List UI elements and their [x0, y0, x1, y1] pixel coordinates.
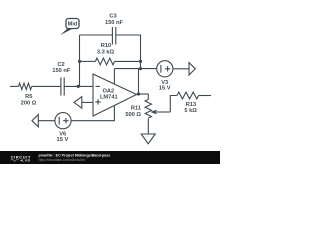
wire wiper up to R13	[170, 96, 177, 113]
wire rail down to output node	[138, 69, 140, 94]
wire R13 right lead	[199, 95, 211, 97]
potentiometer R11	[145, 100, 151, 119]
node junction at inverting input	[77, 85, 80, 88]
ground flag right of V3	[189, 63, 195, 75]
wire input left	[10, 85, 19, 87]
ground flag at noninverting input	[74, 97, 82, 109]
footer watermark bar	[0, 151, 220, 164]
svg-text:C3: C3	[109, 14, 116, 20]
svg-text:500 Ω: 500 Ω	[125, 112, 141, 118]
voltage source V6	[55, 113, 71, 129]
svg-text:150 nF: 150 nF	[105, 20, 124, 26]
resistor R5	[19, 83, 32, 89]
svg-text:http://circuitlab.com/c5n4u5rt: http://circuitlab.com/c5n4u5rt/	[39, 158, 86, 162]
svg-text:5 kΩ: 5 kΩ	[184, 108, 197, 114]
wire R10 left lead	[80, 60, 96, 62]
op-amp U1 OA2 LM741	[93, 74, 137, 116]
svg-text:R5: R5	[25, 94, 32, 100]
svg-text:15 V: 15 V	[159, 86, 171, 92]
node junction R10 right	[139, 60, 142, 63]
wire R10 right lead	[115, 60, 141, 62]
wire pot bottom to ground	[147, 119, 149, 134]
wire R5 to C2	[32, 85, 61, 87]
svg-text:R11: R11	[131, 106, 141, 112]
voltage source V3	[157, 61, 173, 77]
svg-text:15 V: 15 V	[57, 137, 69, 143]
svg-text:150 nF: 150 nF	[52, 68, 71, 74]
svg-text:C2: C2	[57, 62, 64, 68]
node junction output	[137, 92, 140, 95]
svg-text:Mid: Mid	[68, 22, 78, 28]
wire V6 left to ground flag	[38, 120, 55, 122]
svg-text:3.3 kΩ: 3.3 kΩ	[97, 50, 115, 56]
svg-text:◂LAB: ◂LAB	[19, 158, 30, 162]
ground flag left of V6	[32, 115, 38, 127]
wire op-amp output	[137, 93, 149, 95]
wire output down to pot R11	[147, 94, 149, 100]
capacitor C2	[61, 78, 64, 96]
resistor R10	[95, 58, 114, 65]
node junction R10 left	[78, 60, 81, 63]
wire V+ rail horizontal	[114, 68, 156, 70]
svg-text:LM741: LM741	[100, 94, 118, 100]
capacitor C3	[112, 27, 115, 45]
wire V6 to op-amp V- stub	[71, 106, 114, 121]
wire feedback left vertical	[79, 35, 81, 86]
wire C3 to right vertical corner	[116, 35, 141, 69]
resistor R13	[177, 92, 199, 99]
svg-text:R10: R10	[101, 43, 111, 49]
svg-text:pmartfw : EC Project Midrange/: pmartfw : EC Project Midrange/Band-pass	[39, 153, 111, 157]
wire C3 top branch left	[80, 34, 113, 36]
wire V+ stub to op-amp	[113, 69, 115, 85]
ground under pot	[141, 134, 155, 144]
wire V3 to flag	[173, 68, 189, 70]
svg-text:200 Ω: 200 Ω	[21, 101, 37, 107]
annotation bubble Mid	[60, 28, 73, 36]
wire noninverting input	[82, 101, 93, 103]
wire C2 to op-amp minus input	[64, 85, 92, 87]
node junction at V+ rail	[139, 67, 142, 70]
